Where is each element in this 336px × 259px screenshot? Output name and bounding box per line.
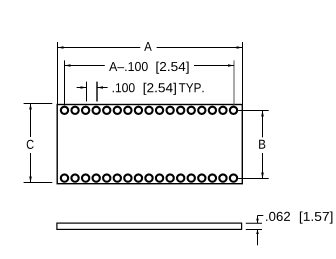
side view body outline [57, 223, 242, 229]
text .062 [266, 212, 290, 221]
pin holes row 2 (17 holes) [61, 174, 237, 181]
text A-.100 [109, 62, 148, 71]
dimension A-.100 [2.54] : dimension line with arrowheads [65, 65, 235, 67]
dimension A-.100 [2.54] : extension ticks [65, 60, 235, 106]
text [2.54] a [156, 62, 188, 74]
dimension .062 [1.57] : arrows outside pointing inward with leader elbow [258, 216, 264, 246]
dimension C : extension lines [24, 104, 53, 183]
text TYP. [179, 83, 204, 92]
text B [259, 140, 265, 149]
text [2.54] b [144, 83, 176, 95]
dimension .100 [2.54] TYP. : extension ticks [87, 82, 98, 102]
dimension B : dimension line with arrowheads [262, 111, 264, 179]
text [1.57] [300, 212, 333, 224]
text A [144, 42, 152, 51]
text C [27, 140, 34, 149]
dimension A : dimension line with arrowheads [58, 47, 243, 49]
dimension B : extension lines [238, 111, 269, 179]
pin holes row 1 (17 holes) [61, 107, 237, 114]
text .100 [113, 83, 135, 92]
dimension C : dimension line with arrowheads [30, 104, 32, 183]
dimension .062 [1.57] : extension lines [246, 223, 262, 229]
component body outline (top view) [57, 105, 242, 184]
dimension A : extension lines [58, 42, 243, 105]
dimension .100 [2.54] TYP. : arrows outside pointing inward [77, 87, 108, 89]
